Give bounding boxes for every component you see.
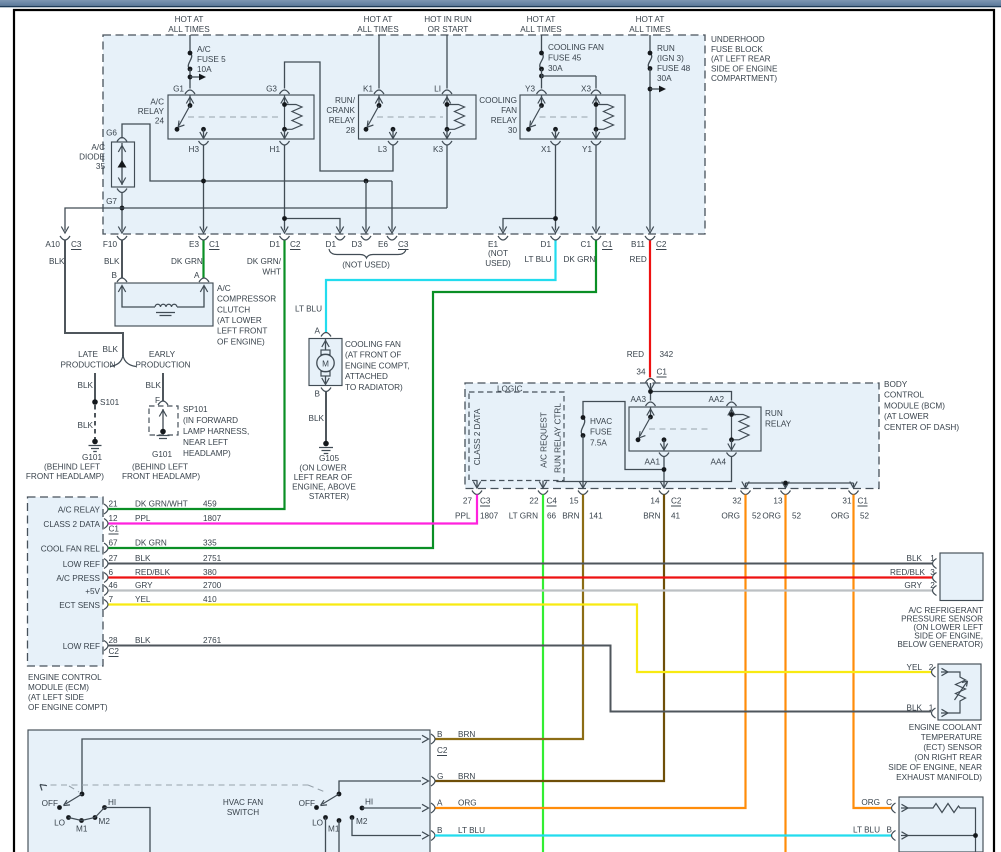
svg-text:LT GRN: LT GRN — [509, 512, 538, 521]
not used bracket — [329, 249, 406, 258]
svg-text:2700: 2700 — [203, 581, 222, 590]
svg-text:DK GRN: DK GRN — [171, 257, 203, 266]
svg-text:LATE: LATE — [78, 350, 98, 359]
ECM pin 7 ECT SENS — [104, 600, 108, 610]
wire AA4 to run relay ctrl — [557, 457, 732, 482]
BCM pin 14 C2 — [659, 491, 669, 495]
svg-text:X3: X3 — [581, 85, 591, 94]
svg-text:12: 12 — [109, 514, 119, 523]
svg-text:COMPRESSOR: COMPRESSOR — [217, 295, 276, 304]
pressure sensor pin 2 — [933, 586, 937, 596]
ground G105 — [323, 441, 329, 447]
svg-text:380: 380 — [203, 568, 217, 577]
svg-text:E6: E6 — [378, 240, 388, 249]
svg-text:27: 27 — [109, 554, 119, 563]
svg-text:MODULE (BCM): MODULE (BCM) — [884, 401, 945, 410]
svg-text:M: M — [322, 360, 329, 369]
svg-text:6: 6 — [109, 568, 114, 577]
svg-text:A/C PRESS: A/C PRESS — [56, 574, 100, 583]
A/C relay coil — [280, 90, 290, 94]
svg-text:34: 34 — [636, 368, 646, 377]
wire PPL pin 27 to ECM pin 12 — [109, 495, 478, 524]
svg-text:C3: C3 — [480, 497, 491, 506]
run/crank relay 28 box — [359, 95, 477, 139]
terminal G6 — [117, 138, 127, 142]
svg-text:28: 28 — [346, 126, 356, 135]
svg-text:HI: HI — [108, 798, 116, 807]
svg-text:GRY: GRY — [135, 581, 153, 590]
svg-text:H1: H1 — [270, 145, 281, 154]
svg-text:ALL TIMES: ALL TIMES — [629, 25, 671, 34]
svg-text:RUN: RUN — [657, 44, 675, 53]
fan switch 2 contacts — [323, 815, 328, 820]
svg-text:MODULE (ECM): MODULE (ECM) — [28, 683, 89, 692]
svg-text:BLK: BLK — [146, 381, 162, 390]
svg-text:342: 342 — [660, 350, 674, 359]
ground G101 left — [92, 439, 98, 445]
svg-text:BLK: BLK — [907, 554, 923, 563]
cooling fan relay link dashed line — [540, 116, 593, 118]
run relay switch — [650, 408, 652, 418]
wire switch 2 HI to pin A — [362, 807, 421, 809]
HVAC fan switch box — [28, 730, 430, 852]
svg-text:13: 13 — [773, 497, 783, 506]
wire RED B11 to BCM 34 C1 — [649, 241, 651, 378]
fuse HVAC 7.5A — [581, 418, 584, 436]
A/C relay 24 box — [168, 95, 314, 139]
fan switch 2 — [337, 792, 342, 797]
svg-text:52: 52 — [792, 512, 802, 521]
terminal F10 — [117, 236, 127, 240]
svg-text:C1: C1 — [858, 497, 869, 506]
svg-text:FUSE: FUSE — [590, 428, 612, 437]
svg-text:CONTROL: CONTROL — [884, 391, 924, 400]
tap arrow right of fuse 48 — [650, 88, 659, 90]
terminal C1 C1 — [591, 236, 601, 240]
svg-text:BRN: BRN — [643, 512, 660, 521]
wire YEL 410 to ECT sensor 2 — [109, 605, 932, 673]
svg-text:G101: G101 — [152, 450, 172, 459]
svg-text:B: B — [887, 826, 893, 835]
wire class 2 data to pin 27 — [476, 481, 478, 488]
svg-text:D3: D3 — [352, 240, 363, 249]
svg-text:K3: K3 — [433, 145, 443, 154]
svg-text:ALL TIMES: ALL TIMES — [168, 25, 210, 34]
svg-text:HOT AT: HOT AT — [175, 15, 204, 24]
wire feed K1 — [378, 35, 380, 89]
terminal E1 not used — [498, 236, 508, 240]
svg-text:K1: K1 — [363, 85, 373, 94]
svg-text:A/C REQUEST: A/C REQUEST — [540, 412, 549, 468]
svg-text:C1: C1 — [209, 240, 220, 249]
svg-text:OF ENGINE): OF ENGINE) — [217, 337, 265, 346]
run/crank relay coil — [442, 90, 452, 94]
svg-text:LAMP HARNESS,: LAMP HARNESS, — [183, 427, 249, 436]
svg-text:DK GRN: DK GRN — [135, 539, 167, 548]
wire LT GRN pin 22 down — [542, 495, 544, 852]
run/crank relay switch output L3 — [391, 127, 396, 132]
svg-text:(IGN 3): (IGN 3) — [657, 54, 684, 63]
svg-text:COOLING: COOLING — [479, 96, 517, 105]
svg-text:TO RADIATOR): TO RADIATOR) — [345, 383, 403, 392]
wire feed LI — [446, 35, 448, 89]
svg-text:2761: 2761 — [203, 636, 222, 645]
wire feed to A/C fuse 5 — [189, 35, 191, 53]
svg-text:HI: HI — [365, 798, 373, 807]
svg-text:USED): USED) — [485, 259, 511, 268]
svg-text:LT BLU: LT BLU — [525, 255, 552, 264]
svg-text:46: 46 — [109, 581, 119, 590]
wire to not-used E6 — [391, 181, 393, 231]
cooling fan terminal B — [321, 388, 331, 392]
svg-text:BLK: BLK — [78, 381, 94, 390]
wire BLK late production — [94, 373, 96, 400]
wire BLK early production — [162, 373, 164, 401]
svg-text:C2: C2 — [290, 240, 301, 249]
splice SP101 box — [149, 406, 178, 435]
svg-text:BLK: BLK — [907, 704, 923, 713]
svg-text:FRONT HEADLAMP): FRONT HEADLAMP) — [122, 472, 200, 481]
svg-text:15: 15 — [569, 497, 579, 506]
wire switch 1 HI down — [105, 808, 151, 852]
svg-text:FAN: FAN — [501, 106, 517, 115]
svg-text:C3: C3 — [71, 240, 82, 249]
wire BLK fan B to G105 — [325, 392, 327, 442]
run/crank relay switch — [378, 96, 380, 106]
wire BLK 2761 to ECT sensor 1 — [109, 646, 932, 712]
svg-text:A/C: A/C — [217, 284, 231, 293]
svg-text:HOT AT: HOT AT — [527, 15, 556, 24]
wire Y1 to C1 — [595, 145, 597, 231]
ECM pin 28 LOW REF — [104, 641, 108, 651]
wire X1 to E1/D1 — [503, 145, 556, 231]
svg-text:(NOT: (NOT — [488, 249, 508, 258]
svg-text:SIDE OF ENGINE, NEAR: SIDE OF ENGINE, NEAR — [888, 763, 982, 772]
svg-text:A/C: A/C — [150, 98, 164, 107]
svg-text:FUSE BLOCK: FUSE BLOCK — [711, 45, 763, 54]
svg-text:(AT FRONT OF: (AT FRONT OF — [345, 351, 401, 360]
cooling fan motor box — [309, 339, 342, 386]
svg-text:C: C — [886, 798, 892, 807]
svg-text:A: A — [315, 327, 321, 336]
wire BLK dashed S101 to G101 — [94, 405, 96, 439]
svg-text:RUN RELAY CTRL: RUN RELAY CTRL — [554, 403, 563, 473]
wire to not-used D3 — [365, 181, 367, 231]
wire LT BLU HVAC B to blower resistor B — [435, 834, 892, 836]
wire ORG pin 31 to blower resistor C — [854, 495, 893, 809]
svg-text:2: 2 — [930, 581, 935, 590]
ECM pin 12 CLASS 2 DATA — [104, 519, 108, 529]
svg-text:RED/BLK: RED/BLK — [135, 568, 171, 577]
svg-text:41: 41 — [671, 512, 681, 521]
wire AA1 to pins 14 and hvac fuse — [583, 402, 664, 488]
svg-text:OFF: OFF — [299, 799, 315, 808]
wire H1 down to D1/C2 with branch to not-used D1 — [285, 145, 341, 231]
svg-text:2: 2 — [929, 663, 934, 672]
BCM pin 13 — [781, 491, 791, 495]
svg-text:C3: C3 — [398, 240, 409, 249]
wire switch 2 M2 to pin B — [352, 818, 421, 836]
BCM pin 32 — [741, 491, 751, 495]
ECT pin 2 — [932, 667, 936, 677]
svg-text:ECT SENS: ECT SENS — [59, 601, 100, 610]
ECM pin 67 COOL FAN REL — [104, 543, 108, 553]
svg-text:10A: 10A — [197, 65, 212, 74]
svg-text:C2: C2 — [109, 647, 120, 656]
svg-text:B: B — [112, 271, 118, 280]
svg-text:52: 52 — [860, 512, 870, 521]
cooling fan relay switch — [541, 96, 543, 106]
svg-text:RELAY: RELAY — [138, 107, 165, 116]
svg-text:(BEHIND LEFT: (BEHIND LEFT — [132, 463, 188, 472]
wire G7 down to F10 — [121, 193, 123, 231]
wire H3 down to E3 — [203, 145, 205, 231]
svg-text:ATTACHED: ATTACHED — [345, 372, 388, 381]
svg-text:BLK: BLK — [135, 554, 151, 563]
svg-text:1: 1 — [930, 554, 935, 563]
svg-text:35: 35 — [96, 162, 106, 171]
ECM pin 46 +5V — [104, 586, 108, 596]
svg-text:G101: G101 — [82, 453, 102, 462]
svg-text:G105: G105 — [319, 454, 339, 463]
clutch terminal A — [199, 278, 209, 282]
svg-text:52: 52 — [752, 512, 762, 521]
terminal D1 not used — [335, 236, 345, 240]
svg-text:C1: C1 — [657, 368, 668, 377]
wire BLK A10 to production split — [65, 241, 123, 357]
svg-text:3: 3 — [930, 568, 935, 577]
A/C relay link dashed line — [188, 116, 281, 118]
svg-text:ORG: ORG — [762, 512, 781, 521]
cooling fan relay 30 box — [520, 95, 625, 139]
svg-text:HOT IN RUN: HOT IN RUN — [424, 15, 472, 24]
svg-text:PPL: PPL — [135, 514, 151, 523]
svg-text:28: 28 — [109, 636, 119, 645]
wire fuse48 to B11 — [649, 69, 651, 231]
svg-text:B11: B11 — [631, 240, 645, 249]
HVAC pin G — [431, 776, 435, 786]
ground bus K3 to A10 — [65, 208, 447, 231]
fuse F48 run ign3 30A — [648, 53, 651, 69]
run relay box — [629, 407, 761, 451]
svg-text:L3: L3 — [378, 145, 388, 154]
svg-text:COOL FAN REL: COOL FAN REL — [41, 545, 101, 554]
A/C compressor clutch box — [115, 283, 213, 326]
run/crank relay link dashed line — [377, 116, 443, 118]
svg-text:B: B — [437, 826, 443, 835]
svg-text:Y1: Y1 — [582, 145, 592, 154]
svg-text:YEL: YEL — [135, 595, 151, 604]
wire a/c request to pin 22 — [542, 481, 544, 488]
A/C diode 35 box — [112, 142, 135, 187]
svg-text:A/C: A/C — [197, 45, 211, 54]
ECT pin 1 — [932, 708, 936, 718]
svg-text:141: 141 — [589, 512, 603, 521]
svg-text:C1: C1 — [109, 525, 120, 534]
engine control module dashed box — [28, 497, 104, 666]
svg-text:CLASS 2 DATA: CLASS 2 DATA — [473, 408, 482, 465]
wire GRY 2700 to pressure sensor 2 — [109, 589, 933, 591]
svg-text:D1: D1 — [326, 240, 337, 249]
svg-text:(ON LOWER: (ON LOWER — [299, 464, 346, 473]
svg-text:FUSE 48: FUSE 48 — [657, 64, 691, 73]
BCM internal splice bus pins 32 13 31 — [746, 483, 854, 488]
run relay coil — [731, 408, 733, 415]
svg-text:410: 410 — [203, 595, 217, 604]
svg-text:22: 22 — [529, 497, 539, 506]
svg-text:D1: D1 — [541, 240, 552, 249]
mechanical linkage dashed — [40, 785, 324, 792]
BCM pin 15 — [578, 491, 588, 495]
svg-text:BRN: BRN — [458, 730, 475, 739]
wire LT BLU D1 to cooling fan A — [326, 241, 556, 333]
fuse F5 A/C 10A — [188, 53, 191, 69]
svg-text:AA1: AA1 — [645, 458, 661, 467]
svg-text:OR START: OR START — [428, 25, 469, 34]
wire DK GRN/WHT D1 to ECM pin 21 — [109, 241, 285, 510]
svg-text:OF ENGINE COMPT): OF ENGINE COMPT) — [28, 703, 108, 712]
terminal D1 C2 — [280, 236, 290, 240]
svg-text:7: 7 — [109, 595, 114, 604]
svg-text:PPL: PPL — [455, 512, 471, 521]
svg-text:LI: LI — [434, 85, 441, 94]
svg-text:A/C RELAY: A/C RELAY — [58, 506, 101, 515]
svg-text:G3: G3 — [266, 85, 277, 94]
wire fuse45 split to Y3 and X3 — [542, 69, 597, 89]
svg-text:1: 1 — [929, 704, 934, 713]
svg-text:A: A — [437, 799, 443, 808]
svg-text:31: 31 — [842, 497, 852, 506]
svg-text:DK GRN: DK GRN — [564, 255, 596, 264]
svg-text:RED: RED — [627, 350, 644, 359]
HVAC row B feed and switch 1 riser — [82, 739, 421, 794]
wire G6 up over to H3/E3 node and not-used D3 E6 — [122, 124, 392, 181]
svg-text:(AT LOWER: (AT LOWER — [217, 316, 262, 325]
wire ORG pin 13 down — [784, 495, 786, 852]
svg-text:LT BLU: LT BLU — [295, 305, 322, 314]
body control module dashed box — [465, 383, 879, 489]
svg-text:RED/BLK: RED/BLK — [890, 568, 926, 577]
svg-text:SWITCH: SWITCH — [227, 808, 259, 817]
svg-text:STARTER): STARTER) — [309, 492, 349, 501]
svg-text:PRODUCTION: PRODUCTION — [135, 361, 190, 370]
svg-text:COMPARTMENT): COMPARTMENT) — [711, 74, 777, 83]
engine coolant temperature sensor box — [938, 664, 981, 720]
fuse F45 cooling fan 30A — [540, 53, 543, 69]
svg-text:DK GRN/: DK GRN/ — [247, 257, 282, 266]
svg-text:BELOW GENERATOR): BELOW GENERATOR) — [897, 640, 983, 649]
svg-text:M2: M2 — [99, 817, 111, 826]
HVAC pin B lt blu — [431, 831, 435, 841]
svg-text:24: 24 — [155, 117, 165, 126]
svg-text:30A: 30A — [548, 64, 563, 73]
underhood fuse block box — [103, 35, 705, 234]
svg-text:B: B — [437, 730, 443, 739]
svg-text:SP101: SP101 — [183, 405, 208, 414]
svg-text:459: 459 — [203, 500, 217, 509]
wire G3 to L3 — [285, 62, 394, 171]
cooling fan relay switch output X1 — [553, 127, 558, 132]
wire BLK 2751 to pressure sensor 1 — [109, 563, 933, 565]
svg-text:ENGINE, ABOVE: ENGINE, ABOVE — [292, 483, 356, 492]
terminal B11 C2 — [645, 236, 655, 240]
svg-text:RELAY: RELAY — [491, 116, 518, 125]
svg-text:EARLY: EARLY — [149, 350, 176, 359]
svg-text:LOW REF: LOW REF — [63, 560, 100, 569]
title bar dark edge — [0, 6, 1001, 8]
svg-text:HVAC FAN: HVAC FAN — [223, 798, 263, 807]
svg-text:NEAR LEFT: NEAR LEFT — [183, 438, 228, 447]
svg-text:TEMPERATURE: TEMPERATURE — [921, 733, 983, 742]
svg-text:B: B — [315, 390, 321, 399]
svg-text:ORG: ORG — [861, 798, 880, 807]
svg-text:FUSE 45: FUSE 45 — [548, 54, 582, 63]
BCM pin 31 C1 — [849, 491, 859, 495]
svg-text:WHT: WHT — [262, 268, 281, 277]
window title bar — [0, 0, 1001, 6]
svg-text:(ON RIGHT REAR: (ON RIGHT REAR — [914, 753, 982, 762]
svg-text:CRANK: CRANK — [326, 106, 355, 115]
svg-text:67: 67 — [109, 539, 119, 548]
svg-text:LOW REF: LOW REF — [63, 642, 100, 651]
svg-text:LT BLU: LT BLU — [458, 826, 485, 835]
svg-text:G1: G1 — [173, 85, 184, 94]
svg-text:ENGINE CONTROL: ENGINE CONTROL — [28, 673, 102, 682]
BCM logic inner dashed box — [469, 392, 564, 481]
HVAC pin A — [431, 803, 435, 813]
svg-text:RELAY: RELAY — [329, 116, 356, 125]
svg-text:RELAY: RELAY — [765, 420, 792, 429]
svg-text:C1: C1 — [581, 240, 592, 249]
wire BRN 41 pin 14 to HVAC G — [435, 495, 664, 782]
svg-text:DK GRN/WHT: DK GRN/WHT — [135, 500, 188, 509]
terminal E6 not used — [387, 236, 397, 240]
A/C relay switch — [189, 96, 191, 106]
A/C relay switch output H3 — [201, 127, 206, 132]
svg-text:RUN/: RUN/ — [335, 96, 356, 105]
ECM pin 27 LOW REF — [104, 559, 108, 569]
svg-text:E3: E3 — [189, 240, 199, 249]
svg-text:Y3: Y3 — [525, 85, 535, 94]
run relay link dashed line — [649, 428, 712, 430]
svg-text:X1: X1 — [541, 145, 551, 154]
svg-text:LO: LO — [54, 819, 65, 828]
svg-text:RUN: RUN — [765, 409, 783, 418]
svg-text:A10: A10 — [45, 240, 60, 249]
ECM pin 6 A/C PRESS — [104, 573, 108, 583]
svg-text:YEL: YEL — [907, 663, 923, 672]
svg-text:BRN: BRN — [458, 772, 475, 781]
svg-text:HOT AT: HOT AT — [636, 15, 665, 24]
svg-text:M2: M2 — [356, 817, 368, 826]
svg-text:SIDE OF ENGINE: SIDE OF ENGINE — [711, 64, 778, 73]
terminal D1 lt blu — [551, 236, 561, 240]
svg-text:M1: M1 — [76, 825, 88, 834]
svg-text:E1: E1 — [488, 240, 498, 249]
diode symbol — [121, 143, 123, 185]
svg-text:A/C: A/C — [91, 143, 105, 152]
wire feed to run fuse 48 — [649, 35, 651, 53]
blower resistor pin C — [892, 803, 896, 813]
svg-text:ORG: ORG — [831, 512, 850, 521]
terminal A10 C3 — [60, 236, 70, 240]
svg-text:(AT LEFT REAR: (AT LEFT REAR — [711, 55, 771, 64]
svg-text:C2: C2 — [656, 240, 667, 249]
terminal E3 C1 — [199, 236, 209, 240]
HVAC pin B — [431, 734, 435, 744]
BCM pin 27 C3 — [472, 491, 482, 495]
HVAC row G from switch 2 pivot — [339, 781, 421, 794]
